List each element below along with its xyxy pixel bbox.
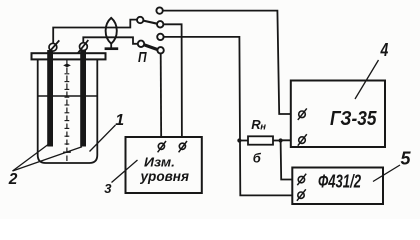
svg-text:2: 2 (8, 171, 18, 188)
svg-text:ГЗ-35: ГЗ-35 (330, 108, 377, 130)
svg-text:уровня: уровня (139, 169, 189, 184)
svg-text:4: 4 (380, 40, 389, 60)
svg-text:5: 5 (401, 148, 412, 169)
svg-text:н: н (260, 121, 266, 132)
svg-text:3: 3 (104, 181, 112, 196)
svg-text:б: б (253, 150, 262, 165)
svg-text:1: 1 (115, 112, 124, 129)
svg-text:Изм.: Изм. (144, 155, 175, 170)
svg-text:Ф431/2: Ф431/2 (318, 172, 361, 192)
svg-text:П: П (138, 49, 148, 66)
